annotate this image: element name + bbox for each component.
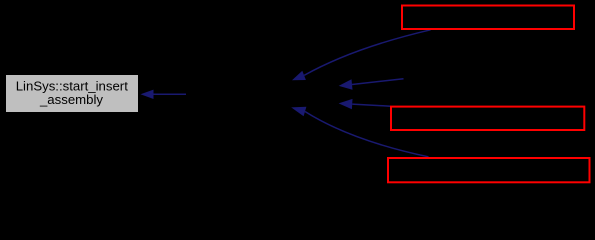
edge 1: top truncated caller -> hidden middle node (curved) [292, 30, 431, 80]
node: top caller box (truncated, red border) [402, 6, 574, 30]
edge A: hidden middle caller -> LinSys::start_insert_assembly [141, 90, 187, 99]
node: bottom caller box (truncated, red border) [388, 158, 590, 182]
svg-text:_assembly: _assembly [39, 92, 103, 107]
edge 3: middle truncated caller -> hidden middle node [339, 99, 391, 109]
edge 2: hidden right caller -> hidden middle node [339, 79, 404, 90]
node: LinSys::start_insert_assembly (current function, grey box) [6, 75, 138, 112]
node: middle caller box (truncated, red border) [391, 107, 584, 130]
edge 4: bottom truncated caller -> hidden middle node (curved) [291, 107, 428, 157]
